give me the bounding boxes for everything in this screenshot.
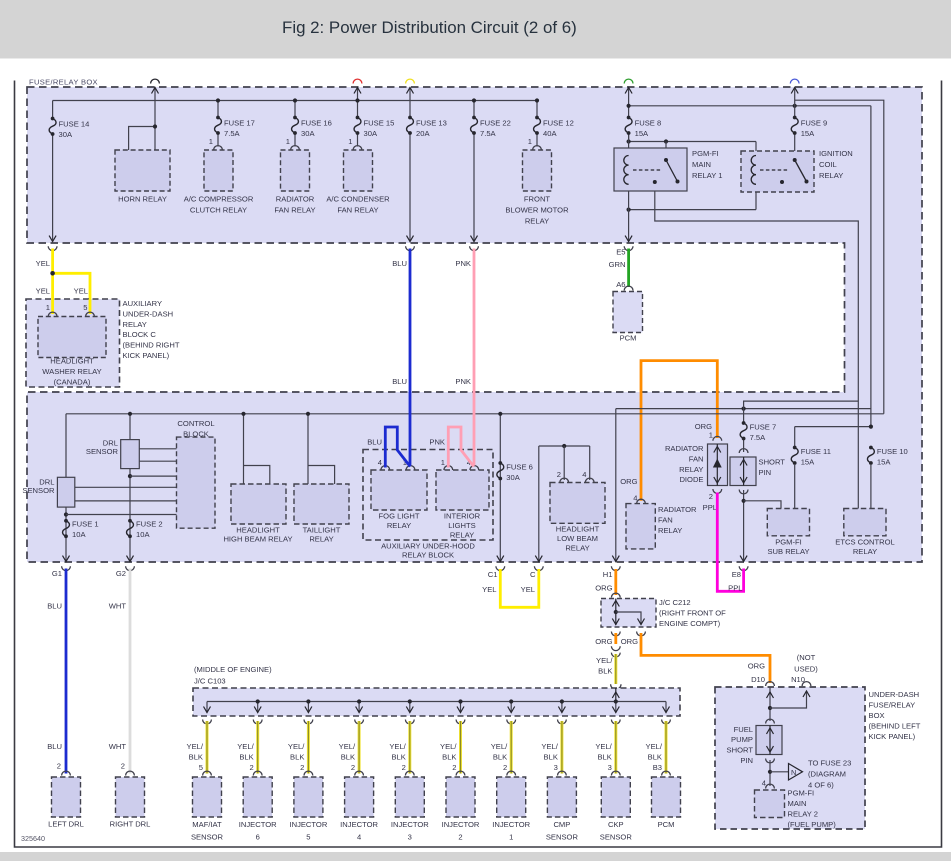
wire PNK inside box2 xyxy=(473,392,476,467)
wire YEL/BLK to INJECTOR 4 xyxy=(355,720,364,724)
svg-text:BLU: BLU xyxy=(392,259,407,268)
svg-text:INJECTOR: INJECTOR xyxy=(492,820,530,829)
svg-text:CLUTCH RELAY: CLUTCH RELAY xyxy=(190,206,247,215)
wire drl lower link2 xyxy=(75,500,177,502)
wire pgm-fi switch output xyxy=(655,182,859,509)
wire fuse13 column xyxy=(409,88,411,118)
fuse/relay box B3 UNDER-DASH FUSE/RELAY BOX xyxy=(715,687,865,829)
top exit arrow fuse8 (green) xyxy=(625,88,632,94)
svg-text:E5: E5 xyxy=(616,248,625,257)
svg-text:YEL: YEL xyxy=(36,287,50,296)
svg-text:RELAY 2: RELAY 2 xyxy=(788,810,819,819)
fuse F12 FUSE 12 40A xyxy=(535,116,539,120)
fuse F10 FUSE 10 15A xyxy=(869,446,873,450)
svg-text:INTERIOR: INTERIOR xyxy=(444,512,481,521)
relay U10 TAILLIGHT RELAY xyxy=(294,484,349,524)
svg-text:FUSE 12: FUSE 12 xyxy=(543,119,574,128)
svg-text:YEL/: YEL/ xyxy=(595,742,612,751)
wire pgm-fi switch feed drop xyxy=(665,142,667,161)
component INJECTOR 1 xyxy=(497,777,526,817)
wire coil return y209 xyxy=(629,209,756,211)
component MAF/IAT SENSOR xyxy=(193,777,222,817)
svg-text:FUEL: FUEL xyxy=(734,725,753,734)
svg-text:(NOT: (NOT xyxy=(797,653,816,662)
svg-text:YEL/: YEL/ xyxy=(288,742,305,751)
svg-text:BLK: BLK xyxy=(544,753,558,762)
node to-fuse-23 branch xyxy=(768,770,772,774)
switch of ignition coil relay xyxy=(793,158,797,162)
wire PPL E8 loop xyxy=(717,493,743,592)
wire fuse22 drop xyxy=(473,101,475,118)
wire taillight stub xyxy=(307,414,309,484)
C103 drop 3 xyxy=(307,702,309,713)
fuse F15 FUSE 15 30A xyxy=(356,116,360,120)
symbol off-page connector N TO FUSE 23 xyxy=(770,771,789,773)
svg-text:BLK: BLK xyxy=(597,753,611,762)
svg-text:4: 4 xyxy=(357,833,361,842)
svg-text:5: 5 xyxy=(83,303,87,312)
svg-text:FUSE 22: FUSE 22 xyxy=(480,119,511,128)
svg-text:YEL/: YEL/ xyxy=(339,742,356,751)
svg-text:FUSE 17: FUSE 17 xyxy=(224,119,255,128)
C103 drop 4 xyxy=(358,702,360,713)
lamp RIGHT DRL xyxy=(116,777,145,817)
wire drl upper link1 xyxy=(139,448,176,450)
svg-text:N: N xyxy=(791,768,796,777)
component INJECTOR 4 xyxy=(345,777,374,817)
svg-text:KICK PANEL): KICK PANEL) xyxy=(123,351,170,360)
svg-text:YEL/: YEL/ xyxy=(596,656,613,665)
node fuse9 junction xyxy=(793,104,797,108)
node fuse17 bus tap xyxy=(216,98,220,102)
svg-text:4: 4 xyxy=(762,779,766,788)
svg-text:30A: 30A xyxy=(364,129,378,138)
svg-text:3: 3 xyxy=(554,763,558,772)
svg-text:FUSE 16: FUSE 16 xyxy=(301,119,332,128)
node coil supply left xyxy=(627,139,631,143)
svg-text:RADIATOR: RADIATOR xyxy=(658,505,697,514)
wire fuse17 drop xyxy=(217,101,219,118)
wire low beam pin4 stub xyxy=(589,446,591,480)
svg-text:FUSE 13: FUSE 13 xyxy=(416,119,447,128)
wire YEL inside relay block xyxy=(51,299,54,314)
wire G2 column xyxy=(129,414,131,561)
svg-text:2: 2 xyxy=(57,762,61,771)
svg-text:BLOCK C: BLOCK C xyxy=(123,330,157,339)
svg-text:PNK: PNK xyxy=(455,259,471,268)
linkage dashed ignition relay xyxy=(760,169,788,171)
svg-text:1: 1 xyxy=(509,833,513,842)
wire YEL/BLK C212 to C103 xyxy=(614,654,617,684)
svg-text:INJECTOR: INJECTOR xyxy=(289,820,327,829)
component INJECTOR 2 xyxy=(446,777,475,817)
wire C exit column xyxy=(538,446,540,561)
wire pgm-fi feed y100 xyxy=(795,100,884,414)
svg-text:C: C xyxy=(530,570,536,579)
C103 drop 7 xyxy=(510,702,512,713)
pin N10 arc xyxy=(802,682,811,686)
wire YEL/BLK to CMP SENSOR xyxy=(558,720,567,724)
fuse F8 FUSE 8 15A xyxy=(627,116,631,120)
svg-text:FUSE 1: FUSE 1 xyxy=(72,520,99,529)
svg-text:A/C CONDENSER: A/C CONDENSER xyxy=(326,195,390,204)
C103 drop 10 xyxy=(665,702,667,713)
svg-text:UNDER-DASH: UNDER-DASH xyxy=(123,309,174,318)
svg-text:(DIAGRAM: (DIAGRAM xyxy=(808,770,846,779)
svg-text:ORG: ORG xyxy=(595,637,612,646)
wire YEL/BLK to INJECTOR 6 xyxy=(253,720,262,724)
wire YEL/BLK to CKP SENSOR xyxy=(611,720,620,724)
svg-text:INJECTOR: INJECTOR xyxy=(340,820,378,829)
svg-text:LEFT DRL: LEFT DRL xyxy=(48,820,84,829)
wire fuse14 drop xyxy=(52,101,54,119)
wire fuse15 drop xyxy=(357,88,359,118)
svg-text:YEL/: YEL/ xyxy=(491,742,508,751)
pin exits J/C C212 xyxy=(611,632,620,636)
svg-text:(BEHIND RIGHT: (BEHIND RIGHT xyxy=(123,341,180,350)
svg-text:2: 2 xyxy=(402,763,406,772)
node fuse22 bus tap xyxy=(472,98,476,102)
svg-text:DIODE: DIODE xyxy=(679,475,703,484)
svg-text:(FUEL PUMP): (FUEL PUMP) xyxy=(788,820,837,829)
svg-text:15A: 15A xyxy=(877,458,891,467)
svg-text:10A: 10A xyxy=(136,530,150,539)
svg-text:1: 1 xyxy=(441,458,445,467)
svg-text:RELAY: RELAY xyxy=(658,526,682,535)
wire G1 column xyxy=(65,414,67,561)
svg-text:1: 1 xyxy=(286,137,290,146)
svg-text:RELAY 1: RELAY 1 xyxy=(692,171,723,180)
svg-text:7.5A: 7.5A xyxy=(480,129,497,138)
svg-text:3: 3 xyxy=(408,833,412,842)
svg-text:15A: 15A xyxy=(635,129,649,138)
node fuse12 bus tap xyxy=(535,98,539,102)
fuse F9 FUSE 9 15A xyxy=(793,116,797,120)
C103 drop 8 xyxy=(561,702,563,713)
relay U9 HEADLIGHT HIGH BEAM RELAY xyxy=(231,484,286,524)
relay U13 HEADLIGHT LOW BEAM RELAY xyxy=(550,483,605,524)
wire low beam bar xyxy=(539,445,590,447)
svg-text:RELAY: RELAY xyxy=(387,521,411,530)
svg-text:YEL: YEL xyxy=(74,287,88,296)
svg-text:2: 2 xyxy=(503,763,507,772)
wire drl upper link2 xyxy=(139,460,176,462)
svg-text:2: 2 xyxy=(351,763,355,772)
svg-text:2: 2 xyxy=(557,470,561,479)
pin arc yel/blk joint xyxy=(611,646,620,650)
svg-text:SENSOR: SENSOR xyxy=(191,833,224,842)
svg-text:2: 2 xyxy=(249,763,253,772)
svg-text:ETCS CONTROL: ETCS CONTROL xyxy=(835,538,895,547)
sensor DRL SENSOR (lower) xyxy=(57,477,74,507)
svg-text:RELAY: RELAY xyxy=(525,217,549,226)
diode D1 RADIATOR FAN RELAY DIODE xyxy=(708,444,728,486)
svg-text:BLK: BLK xyxy=(391,753,405,762)
wire fuse11 chain xyxy=(794,427,796,448)
svg-text:3: 3 xyxy=(608,763,612,772)
svg-text:FUSE 2: FUSE 2 xyxy=(136,520,163,529)
bus fuse8-fuse9 link y106 xyxy=(629,105,871,107)
wire taillight jog xyxy=(308,466,335,485)
svg-text:RELAY: RELAY xyxy=(309,535,333,544)
wire relay coil supply y141 xyxy=(629,141,756,143)
module PCM (top) xyxy=(613,292,643,333)
svg-text:(CANADA): (CANADA) xyxy=(54,378,91,387)
svg-text:FAN RELAY: FAN RELAY xyxy=(274,206,315,215)
relay block B2 AUXILIARY UNDER-HOOD RELAY BLOCK xyxy=(363,450,493,541)
svg-text:J/C C212: J/C C212 xyxy=(659,598,691,607)
svg-text:SUB RELAY: SUB RELAY xyxy=(767,547,809,556)
svg-text:PUMP: PUMP xyxy=(731,735,753,744)
svg-text:RELAY: RELAY xyxy=(123,320,147,329)
svg-text:CONTROL: CONTROL xyxy=(177,419,214,428)
bottom exit arrow YEL xyxy=(49,236,56,242)
wire fuse11 feed xyxy=(795,426,871,428)
node fuse8 junction xyxy=(627,104,631,108)
fuse F14 FUSE 14 30A xyxy=(51,117,55,121)
svg-text:J/C C103: J/C C103 xyxy=(194,677,226,686)
relay U14 RADIATOR FAN RELAY xyxy=(626,504,655,549)
switch of pgm-fi main relay 1 xyxy=(664,158,668,162)
svg-text:RIGHT DRL: RIGHT DRL xyxy=(110,820,151,829)
relay U8 HEADLIGHT WASHER RELAY (CANADA) xyxy=(38,317,106,358)
svg-text:INJECTOR: INJECTOR xyxy=(391,820,429,829)
svg-text:G2: G2 xyxy=(116,569,126,578)
svg-text:ORG: ORG xyxy=(595,584,612,593)
wire E5 column to exit xyxy=(628,133,630,241)
component INJECTOR 5 xyxy=(294,777,323,817)
pin 2 radiator fan relay diode xyxy=(713,489,722,493)
node low beam bar junction xyxy=(562,444,566,448)
svg-text:6: 6 xyxy=(256,833,260,842)
svg-text:A6: A6 xyxy=(616,280,625,289)
junction connector J/C C212 xyxy=(611,593,620,597)
svg-text:5: 5 xyxy=(306,833,310,842)
C103 drop 5 xyxy=(409,702,411,713)
short pin SP1 SHORT PIN xyxy=(739,449,748,453)
fuse F7 FUSE 7 7.5A xyxy=(742,421,746,425)
svg-text:YEL/: YEL/ xyxy=(389,742,406,751)
wire horn relay jog xyxy=(129,127,155,151)
svg-text:D10: D10 xyxy=(751,675,765,684)
svg-text:HEADLIGHT: HEADLIGHT xyxy=(236,526,280,535)
wire YEL/BLK to INJECTOR 2 xyxy=(456,720,465,724)
svg-text:HEADLIGHT: HEADLIGHT xyxy=(50,357,94,366)
svg-text:4: 4 xyxy=(378,458,382,467)
wire YEL C1 to C loop xyxy=(500,569,539,607)
svg-text:GRN: GRN xyxy=(609,260,626,269)
svg-text:10A: 10A xyxy=(72,530,86,539)
component CMP SENSOR xyxy=(547,777,576,817)
relay U11 FOG LIGHT RELAY xyxy=(371,470,427,510)
svg-text:DRL: DRL xyxy=(103,439,118,448)
relay U5 FRONT BLOWER MOTOR RELAY xyxy=(523,150,552,191)
wire fuse12 drop xyxy=(536,101,538,118)
C103 drop 1 xyxy=(206,702,208,713)
svg-text:AUXILIARY: AUXILIARY xyxy=(123,299,163,308)
svg-text:30A: 30A xyxy=(59,130,73,139)
svg-text:SHORT: SHORT xyxy=(759,458,786,467)
wire ORG H1 to J/C C212 xyxy=(614,569,617,595)
svg-text:A/C COMPRESSOR: A/C COMPRESSOR xyxy=(184,195,254,204)
svg-text:ORG: ORG xyxy=(621,637,638,646)
svg-text:1: 1 xyxy=(348,137,352,146)
svg-text:SENSOR: SENSOR xyxy=(86,447,119,456)
svg-text:FAN: FAN xyxy=(689,454,704,463)
bus bar top (left) xyxy=(53,100,537,102)
wire N10 branch xyxy=(770,691,807,708)
svg-text:RELAY: RELAY xyxy=(853,547,877,556)
svg-text:2: 2 xyxy=(458,833,462,842)
engine compartment fuse/relay box outline (C-shaped) xyxy=(27,87,922,562)
wire BLU inside box2 xyxy=(409,392,412,467)
svg-text:LIGHTS: LIGHTS xyxy=(448,521,475,530)
svg-text:YEL/: YEL/ xyxy=(541,742,558,751)
svg-text:15A: 15A xyxy=(801,458,815,467)
svg-text:SHORT: SHORT xyxy=(727,746,754,755)
relay U15 PGM-FI SUB RELAY xyxy=(767,509,809,536)
relay U17 PGM-FI MAIN RELAY 2 (FUEL PUMP) xyxy=(755,790,785,818)
node coil return xyxy=(627,208,631,212)
svg-text:BLU: BLU xyxy=(47,742,62,751)
svg-text:BLK: BLK xyxy=(598,667,612,676)
svg-text:PCM: PCM xyxy=(620,334,637,343)
wire fuse10 chain xyxy=(870,447,872,449)
wire YEL/BLK to PCM xyxy=(662,720,671,724)
coil of pgm-fi main relay 1 xyxy=(624,156,629,185)
wire YEL/BLK to MAF/IAT SENSOR xyxy=(203,720,212,724)
wire fuse14 column to exit xyxy=(52,134,54,241)
svg-text:2: 2 xyxy=(452,763,456,772)
svg-text:YEL/: YEL/ xyxy=(237,742,254,751)
component INJECTOR 6 xyxy=(243,777,272,817)
wire H1 feed y408 xyxy=(616,408,871,410)
wire PNK fuse22 to interior lights relay xyxy=(473,249,476,394)
fuse F1 FUSE 1 10A xyxy=(64,519,68,523)
svg-text:30A: 30A xyxy=(506,473,520,482)
svg-text:CKP: CKP xyxy=(608,820,624,829)
relay U16 ETCS CONTROL RELAY xyxy=(844,509,886,536)
svg-text:7.5A: 7.5A xyxy=(750,433,767,442)
node fuse16 bus tap xyxy=(293,98,297,102)
bottom exit arrow GRN E5 xyxy=(625,236,632,242)
wire ORG C212 to D10 xyxy=(641,633,770,683)
footer bar xyxy=(0,852,951,861)
svg-text:YEL: YEL xyxy=(482,585,496,594)
svg-text:BLK: BLK xyxy=(493,753,507,762)
svg-text:BLK: BLK xyxy=(290,753,304,762)
wire BLU G1 to left drl xyxy=(65,569,68,774)
wire fuse8 column top xyxy=(628,88,630,118)
component CKP SENSOR xyxy=(601,777,630,817)
wire BLU fog light hook xyxy=(385,427,410,468)
svg-text:FUSE 6: FUSE 6 xyxy=(506,463,533,472)
svg-text:WHT: WHT xyxy=(109,602,127,611)
wire fuse8 to coil xyxy=(628,133,630,142)
node high beam bus tap xyxy=(241,412,245,416)
svg-text:RELAY: RELAY xyxy=(679,465,703,474)
svg-text:UNDER-DASH: UNDER-DASH xyxy=(869,690,920,699)
bottom exits box2 xyxy=(63,556,70,562)
junction connector J/C C103 xyxy=(611,684,621,689)
svg-text:2: 2 xyxy=(709,492,713,501)
wire fuse1 link xyxy=(66,514,177,516)
svg-text:FUSE 11: FUSE 11 xyxy=(801,447,831,456)
bus bar box2 xyxy=(66,413,884,415)
node pgm-fi switch feed xyxy=(664,139,668,143)
short pin SP2 FUEL PUMP SHORT PIN xyxy=(766,719,775,723)
svg-text:RELAY: RELAY xyxy=(819,171,843,180)
node fuse1 junction xyxy=(64,512,68,516)
svg-text:ORG: ORG xyxy=(620,477,637,486)
clipped label FUSE/RELAY BOX xyxy=(20,66,150,87)
svg-text:RELAY: RELAY xyxy=(565,544,589,553)
relay U3 RADIATOR FAN RELAY (top) xyxy=(281,150,310,191)
node fuse11 feed tap xyxy=(869,425,873,429)
node fuse6 bus tap xyxy=(498,412,502,416)
svg-text:C1: C1 xyxy=(488,570,498,579)
svg-text:G1: G1 xyxy=(52,569,62,578)
wire YEL/BLK to INJECTOR 5 xyxy=(304,720,313,724)
svg-text:B3: B3 xyxy=(653,763,662,772)
wire ignition coil column xyxy=(755,142,757,210)
fuse F2 FUSE 2 10A xyxy=(128,519,132,523)
svg-text:PIN: PIN xyxy=(759,468,772,477)
wire low beam pin2 stub xyxy=(563,446,565,480)
wire fuse7 jog xyxy=(744,401,859,409)
relay block B1 AUXILIARY UNDER-DASH RELAY BLOCK C xyxy=(26,299,120,387)
C103 drop 6 xyxy=(460,702,462,713)
wire high beam jog xyxy=(244,466,270,485)
svg-text:HIGH BEAM RELAY: HIGH BEAM RELAY xyxy=(223,535,292,544)
node taillight bus tap xyxy=(306,412,310,416)
svg-text:E8: E8 xyxy=(732,570,741,579)
svg-text:BLU: BLU xyxy=(367,438,382,447)
wire ORG C212 to C103 stub xyxy=(614,633,617,644)
svg-text:BLK: BLK xyxy=(648,753,662,762)
wire fuse16 drop xyxy=(294,101,296,118)
svg-text:1: 1 xyxy=(46,303,50,312)
svg-text:HORN RELAY: HORN RELAY xyxy=(118,195,167,204)
svg-text:ORG: ORG xyxy=(748,662,765,671)
svg-text:LOW BEAM: LOW BEAM xyxy=(557,534,598,543)
svg-text:ENGINE COMPT): ENGINE COMPT) xyxy=(659,619,721,628)
svg-text:BLU: BLU xyxy=(392,377,407,386)
relay U7 IGNITION COIL RELAY xyxy=(741,151,814,192)
svg-text:FUSE 7: FUSE 7 xyxy=(750,423,777,432)
wire YEL/BLK to INJECTOR 3 xyxy=(405,720,414,724)
wire YEL/BLK to INJECTOR 1 xyxy=(507,720,516,724)
component INJECTOR 3 xyxy=(395,777,424,817)
node fuse15 bus tap xyxy=(355,98,359,102)
svg-text:PGM-FI: PGM-FI xyxy=(692,149,719,158)
fuse F11 FUSE 11 15A xyxy=(793,446,797,450)
lamp LEFT DRL xyxy=(52,777,81,817)
wire fuse9 column xyxy=(794,88,796,118)
wire PNK interior hook xyxy=(448,427,474,468)
svg-text:FUSE 10: FUSE 10 xyxy=(877,447,908,456)
svg-text:2: 2 xyxy=(300,763,304,772)
svg-text:YEL/: YEL/ xyxy=(440,742,457,751)
svg-text:COIL: COIL xyxy=(819,160,837,169)
svg-text:30A: 30A xyxy=(301,129,315,138)
svg-text:PCM: PCM xyxy=(658,820,675,829)
svg-text:1: 1 xyxy=(528,137,532,146)
svg-text:CMP: CMP xyxy=(553,820,570,829)
fuse F16 FUSE 16 30A xyxy=(293,116,297,120)
svg-text:PNK: PNK xyxy=(429,438,445,447)
C103 drop 2 xyxy=(257,702,259,713)
